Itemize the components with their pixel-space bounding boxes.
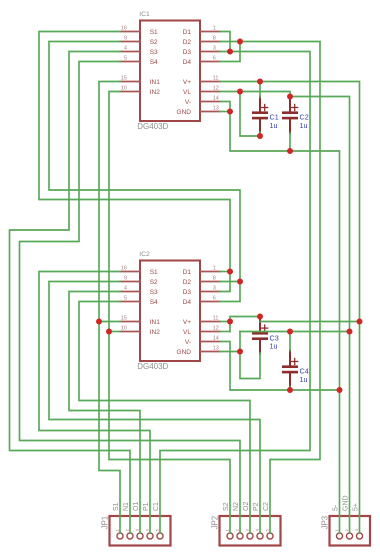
connector JP1 body [110, 516, 171, 546]
wire VL branch down to C1 bottom [240, 92, 260, 137]
svg-text:3: 3 [213, 286, 216, 292]
svg-text:1u: 1u [270, 121, 278, 130]
junction IC2.IN1 at (99,321.5) [96, 319, 102, 325]
junction GND rail at (349.5,331.5) [347, 329, 353, 335]
svg-text:D3: D3 [183, 49, 192, 56]
wire net IC1.S2 to IC2.D2/D4 via left bundle x=49 [49, 42, 240, 302]
junction 5+ rail at (359.5,321.5) [357, 319, 363, 325]
svg-text:C2: C2 [263, 502, 270, 511]
svg-text:S2: S2 [150, 39, 158, 46]
pin socket 2 of JP2 with net label N2 [233, 502, 243, 539]
wire branch IC2.D1 stub join at x=230 [220, 271, 230, 273]
svg-text:IN1: IN1 [150, 319, 161, 326]
capacitor C4 1u [282, 351, 309, 387]
junction IC1.GND at (230,111.5) [227, 109, 233, 115]
pin D3 (pin 3) of IC2, right side [183, 286, 220, 296]
wire branch IC2.IN1 stub join [99, 321, 120, 323]
capacitor C3 1u [252, 317, 279, 353]
pin IN1 (pin 15) of IC2, left side [120, 316, 160, 326]
svg-text:16: 16 [121, 26, 127, 32]
pin socket 3 of JP2 with net label O2 [243, 502, 253, 539]
wire C2 bottom connection [289, 133, 291, 151]
svg-text:6: 6 [213, 56, 216, 62]
junction C2 top at (290,96.5) [287, 94, 293, 100]
wire branch IC2.D2 stub join at x=240 [220, 281, 240, 283]
svg-text:S2: S2 [223, 502, 230, 511]
pin socket 4 of JP2 with net label P2 [253, 502, 263, 539]
svg-text:9: 9 [124, 276, 127, 282]
pin S3 (pin 4) of IC1, left side [120, 46, 158, 56]
svg-text:15: 15 [121, 316, 127, 322]
junction C4 bottom at (290,390) [287, 387, 293, 393]
svg-text:S1: S1 [113, 502, 120, 511]
wire GND rail horizontal y=331.5 [240, 331, 350, 333]
svg-text:D1: D1 [183, 269, 192, 276]
pin VL (pin 12) of IC2, right side [183, 326, 220, 336]
svg-text:11: 11 [213, 76, 219, 82]
pin socket 1 of JP3 with net label 5- [333, 504, 343, 539]
pin S1 (pin 16) of IC1, left side [120, 26, 158, 36]
wire IC1.D3 horizontal to x=310 then down to JP1.C1 [160, 52, 310, 534]
svg-text:N1: N1 [123, 502, 130, 511]
junction VL at (240,91.5) [237, 89, 243, 95]
pin GND (pin 13) of IC2, right side [177, 346, 220, 356]
wire IC2.GND branch: C3 bottom, C4 top, to GND rail x=349.5 [220, 351, 240, 353]
pin socket 5 of JP2 with net label C2 [263, 502, 273, 539]
pin IN2 (pin 10) of IC1, left side [120, 86, 160, 96]
svg-text:S3: S3 [150, 49, 158, 56]
svg-text:DG403D: DG403D [137, 362, 168, 371]
svg-text:1u: 1u [270, 342, 278, 351]
svg-text:16: 16 [121, 266, 127, 272]
junction IC1.D2 at (240,41.5) [237, 39, 243, 45]
svg-text:S4: S4 [150, 59, 158, 66]
svg-text:6: 6 [213, 296, 216, 302]
wire IC1.D4 to vertical x=240 [220, 42, 240, 62]
svg-text:S2: S2 [150, 279, 158, 286]
wire net IN2 shared IC1+IC2 down to JP2.S2 [109, 92, 230, 534]
svg-text:5+: 5+ [353, 503, 360, 511]
svg-text:D4: D4 [183, 299, 192, 306]
pin IN2 (pin 10) of IC2, left side [120, 326, 160, 336]
svg-text:JP2: JP2 [210, 516, 219, 529]
svg-text:5: 5 [124, 56, 127, 62]
svg-text:IN2: IN2 [150, 89, 161, 96]
svg-text:13: 13 [213, 346, 219, 352]
wire net IC1.S4 wrap via far-left x=19.5 down to JP2.N2 [20, 62, 241, 534]
op-amp U? no — analog switch IC1 DG403D body [140, 21, 200, 122]
pin V- (pin 14) of IC2, right side [185, 336, 220, 346]
pin socket 5 of JP1 with net label C1 [153, 502, 163, 539]
junction IC2.D1 at (230,271.5) [227, 269, 233, 275]
svg-text:O2: O2 [243, 502, 250, 511]
pin VL (pin 12) of IC1, right side [183, 86, 220, 96]
svg-text:13: 13 [213, 106, 219, 112]
svg-text:4: 4 [124, 46, 127, 52]
svg-text:10: 10 [121, 326, 127, 332]
pin socket 3 of JP3 with net label 5+ [353, 503, 363, 539]
svg-text:D3: D3 [183, 289, 192, 296]
svg-text:D4: D4 [183, 59, 192, 66]
pin S2 (pin 9) of IC2, left side [120, 276, 158, 286]
svg-text:VL: VL [183, 89, 191, 96]
wire net IC2.S2 to JP2.P2 [49, 282, 260, 534]
pin S3 (pin 4) of IC2, left side [120, 286, 158, 296]
wire C1 top connection [259, 82, 261, 98]
svg-text:V+: V+ [183, 79, 191, 86]
pin IN1 (pin 15) of IC1, left side [120, 76, 160, 86]
pin D4 (pin 6) of IC1, right side [183, 56, 220, 66]
svg-text:P2: P2 [253, 502, 260, 511]
pin socket 1 of JP2 with net label S2 [223, 502, 233, 539]
svg-text:S1: S1 [150, 29, 158, 36]
junction IC2.GND at (240,351.5) [237, 349, 243, 355]
connector JP3 body [330, 516, 371, 546]
svg-text:S4: S4 [150, 299, 158, 306]
wire net IC2.S3 to JP1.O1 [69, 292, 140, 534]
wire net IN1 shared IC1+IC2 down to JP1.S1 [99, 82, 120, 534]
wire net VL: IC1.VL to C1 bottom, C2 top, JP3.GND via x=349.5 [220, 92, 350, 534]
pin V+ (pin 11) of IC1, right side [183, 76, 220, 86]
pin socket 2 of JP3 with net label GND [343, 495, 353, 539]
svg-text:14: 14 [213, 336, 219, 342]
wire net V+ (5+): IC1.V+ to C1 top and JP3.5+ via x=359.5 [220, 82, 360, 534]
svg-text:5: 5 [124, 296, 127, 302]
wire IC2.V- branch to 5- rail at y=390 [220, 342, 340, 391]
pin D3 (pin 3) of IC1, right side [183, 46, 220, 56]
pin socket 1 of JP1 with net label S1 [113, 502, 123, 539]
op-amp U? no — analog switch IC2 DG403D body [140, 261, 200, 362]
junction C4 top at (290,331.5) [287, 329, 293, 335]
svg-text:IN2: IN2 [150, 329, 161, 336]
pin S4 (pin 5) of IC2, left side [120, 296, 158, 306]
connector JP2 body [220, 516, 281, 546]
svg-text:JP3: JP3 [320, 516, 329, 529]
capacitor C2 1u [282, 97, 309, 133]
svg-text:GND: GND [177, 349, 192, 356]
wire net V- (5-): IC1.V-/GND to C2 bottom, JP3.5- via x=339.5 [220, 102, 340, 534]
svg-text:GND: GND [177, 109, 192, 116]
svg-text:GND: GND [343, 495, 350, 511]
wire branch IC2.IN2 stub join [109, 331, 120, 333]
wire C1 bottom connection [259, 132, 261, 136]
pin V- (pin 14) of IC1, right side [185, 96, 220, 106]
wire C3 pin to 5+ vertical [260, 321, 360, 323]
svg-text:P1: P1 [143, 502, 150, 511]
svg-text:10: 10 [121, 86, 127, 92]
wire net IC2.S1 to JP1.P1 [39, 272, 150, 534]
svg-text:5-: 5- [333, 504, 340, 511]
pin S4 (pin 5) of IC1, left side [120, 56, 158, 66]
junction C1 top at (260,81.5) [257, 79, 263, 85]
pin GND (pin 13) of IC1, right side [177, 106, 220, 116]
pin S1 (pin 16) of IC2, left side [120, 266, 158, 276]
junction IC1.D3 at (230,51.5) [227, 49, 233, 55]
junction C1 bottom at (260,136) [257, 133, 263, 139]
svg-text:IC2: IC2 [139, 251, 150, 258]
svg-text:1: 1 [213, 266, 216, 272]
svg-text:4: 4 [124, 286, 127, 292]
svg-text:9: 9 [124, 36, 127, 42]
wire C4 bottom connection [289, 387, 291, 391]
wire IC2.VL stub join [220, 331, 230, 333]
wire net IC1.D1/D3 to JP1.C1 via x=310 [220, 32, 230, 52]
junction IC2.V+ at (230,321.5) [227, 319, 233, 325]
wire net IC2.S4 to JP2.O2 [79, 302, 250, 534]
svg-text:D2: D2 [183, 279, 192, 286]
svg-text:14: 14 [213, 96, 219, 102]
svg-text:IN1: IN1 [150, 79, 161, 86]
pin D2 (pin 8) of IC2, right side [183, 276, 220, 286]
svg-text:3: 3 [213, 46, 216, 52]
pin V+ (pin 11) of IC2, right side [183, 316, 220, 326]
svg-text:1u: 1u [300, 375, 308, 384]
pin D1 (pin 1) of IC1, right side [183, 26, 220, 36]
svg-text:8: 8 [213, 276, 216, 282]
junction C3 top at (260,316.5) [257, 314, 263, 320]
pin socket 3 of JP1 with net label O1 [133, 502, 143, 539]
junction IC2.IN2 at (109,331.5) [106, 329, 112, 335]
svg-text:N2: N2 [233, 502, 240, 511]
svg-text:S3: S3 [150, 289, 158, 296]
wire net IC1.S1 to IC2.D1/D3 via left bundle x=39 [39, 32, 230, 292]
svg-text:8: 8 [213, 36, 216, 42]
pin socket 2 of JP1 with net label N1 [123, 502, 133, 539]
svg-text:IC1: IC1 [139, 11, 150, 18]
svg-text:1u: 1u [300, 121, 308, 130]
svg-text:12: 12 [213, 326, 219, 332]
svg-text:V+: V+ [183, 319, 191, 326]
wire net IC1.D2/D4 to JP2.C2 via x=320 [220, 42, 320, 534]
svg-text:D2: D2 [183, 39, 192, 46]
pin D4 (pin 6) of IC2, right side [183, 296, 220, 306]
pin S2 (pin 9) of IC1, left side [120, 36, 158, 46]
svg-text:JP1: JP1 [100, 516, 109, 529]
svg-text:V-: V- [185, 99, 191, 106]
pin D2 (pin 8) of IC1, right side [183, 36, 220, 46]
wire C4 top connection [289, 332, 291, 351]
svg-text:DG403D: DG403D [137, 122, 168, 131]
svg-text:15: 15 [121, 76, 127, 82]
svg-text:C1: C1 [153, 502, 160, 511]
capacitor C1 1u [252, 97, 279, 133]
wire IC1.GND stub join [220, 111, 230, 113]
svg-text:V-: V- [185, 339, 191, 346]
svg-text:11: 11 [213, 316, 219, 322]
svg-text:12: 12 [213, 86, 219, 92]
wire IC2.V+ branch to 5+ rail at y=321.5 [220, 321, 230, 323]
wire IC2.V+/VL jog up to C3 top [230, 317, 260, 332]
svg-text:D1: D1 [183, 29, 192, 36]
wire net IC1.S3 wrap via far-left x=9.5 down to JP1.N1 [10, 52, 131, 534]
svg-text:O1: O1 [133, 502, 140, 511]
pin socket 4 of JP1 with net label P1 [143, 502, 153, 539]
junction IC2.D2 at (240,281.5) [237, 279, 243, 285]
junction C2 bottom at (290,151) [287, 148, 293, 154]
junction 5- rail at (339.5,390) [337, 387, 343, 393]
svg-text:VL: VL [183, 329, 191, 336]
svg-text:S1: S1 [150, 269, 158, 276]
pin D1 (pin 1) of IC2, right side [183, 266, 220, 276]
svg-text:1: 1 [213, 26, 216, 32]
